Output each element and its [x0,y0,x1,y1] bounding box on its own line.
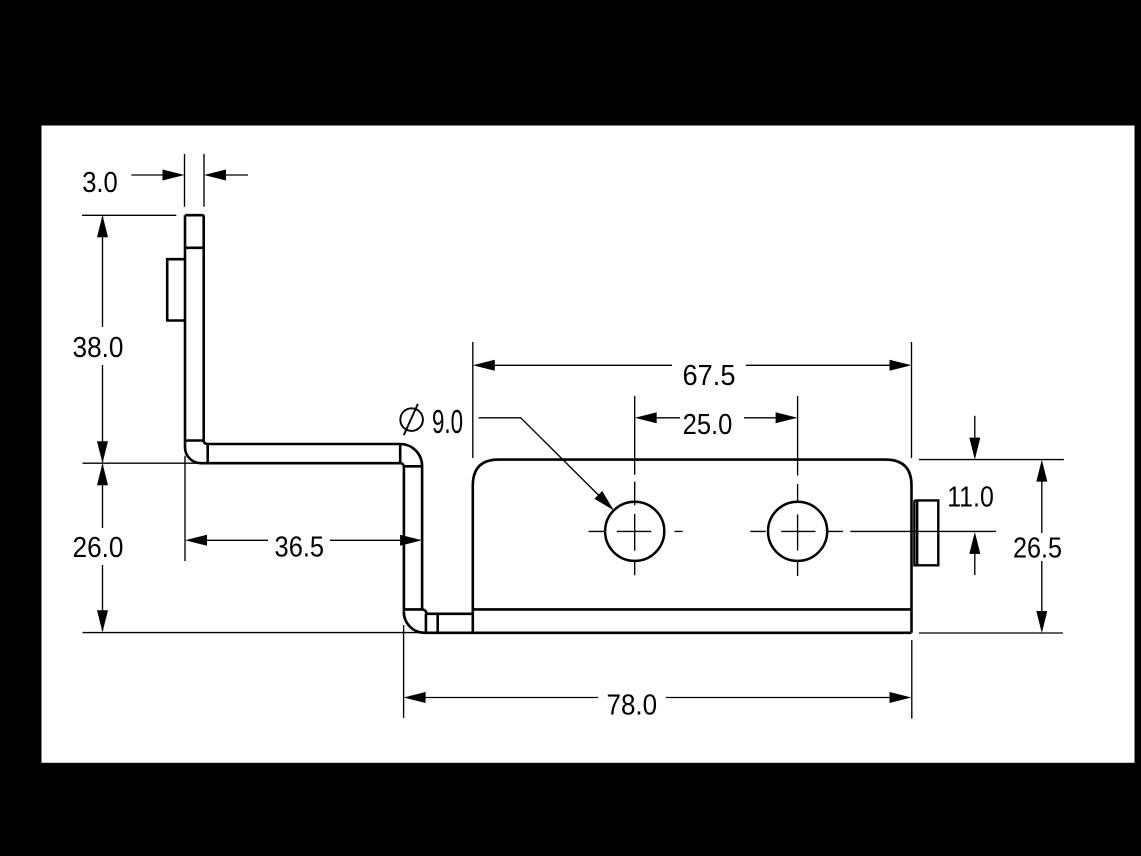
node plate outline [473,460,912,633]
node diameter symbol [400,404,423,435]
node arrow 26.0 down [97,610,108,632]
wire tab inner vertical line [916,500,918,565]
wire inner bend arc into lower wall left edge [400,463,404,612]
wire tick across upper wall [185,247,204,250]
node arrow 3.0 left [163,170,185,181]
svg-text:36.5: 36.5 [275,532,325,564]
wire shared extension line at flange bottom [83,462,199,464]
wire leader for diameter 9.0 [479,418,599,495]
node arrow 67.5 right [890,360,912,371]
wire bottom extension line [83,632,425,634]
wire bend tangent chord at lower wall bottom [404,608,422,611]
node arrow 78.0 right [890,692,912,703]
wire upper wall right edge curving into flange top [204,215,400,444]
wire inner bend tangent vertical [206,444,209,463]
wire dim 78.0 line [426,697,890,699]
node hole2 horizontal centerline [750,530,996,532]
svg-text:26.5: 26.5 [1013,533,1062,565]
node arrow leader 9.0 [594,491,614,511]
wire bottom baseline bold [425,631,912,634]
node arrow 3.0 right [204,170,226,181]
svg-text:3.0: 3.0 [82,167,118,199]
wire top cap of upper wall [185,214,204,217]
svg-text:67.5: 67.5 [683,360,736,392]
node arrow 36.5 left [185,535,207,546]
node right side tab [914,500,938,565]
node arrow 11.0 down [969,438,980,460]
wire dim 78.0 extension lines [404,625,912,719]
svg-text:25.0: 25.0 [683,409,733,441]
wire flange bottom line [201,462,400,465]
wire foot bend tangent vertical [425,614,428,633]
wire dim 11.0 top arrow stem [974,416,976,439]
wire dim 3.0 arrow stems [131,174,248,176]
node left tab on upper wall [167,259,185,320]
wire dim 38.0 line [102,217,104,463]
wire dim 36.5 line [207,539,400,541]
node hole1 horizontal centerline [589,530,683,532]
wire bottom extension line right [919,632,1063,634]
wire inner bend tangent chord horizontal [404,465,421,468]
svg-text:11.0: 11.0 [947,482,994,514]
svg-text:26.0: 26.0 [73,532,124,564]
svg-text:38.0: 38.0 [73,332,124,364]
wire dim 3.0 extension lines [185,154,205,207]
node arrow 36.5 right [400,535,422,546]
wire foot extra vertical line [436,614,439,633]
svg-text:78.0: 78.0 [607,690,658,722]
node arrow 25.0 left [635,412,657,423]
node arrow 78.0 left [404,692,426,703]
wire plate lower face line [473,608,912,611]
node hole 1 left [605,502,664,561]
wire dim 25.0 line [657,417,776,419]
node arrow 26.5 up [1036,460,1047,482]
wire dim 11.0 bottom arrow stem [974,553,976,575]
wire inner bend arc into foot top line [422,609,473,613]
wire outer bend arc into lower wall right edge [400,444,422,609]
node arrow 38.0 down [97,441,108,463]
node arrow 26.0 up [97,463,108,485]
node hole 2 right [768,502,827,561]
wire dim 38.0 top extension line [82,214,176,216]
node arrow 38.0 up [97,215,108,237]
svg-text:9.0: 9.0 [432,403,463,440]
node hole2 vertical centerline [797,396,799,576]
node arrow 25.0 right [776,412,798,423]
node arrow 11.0 up [969,532,980,554]
wire bend tangent chord at wall bottom [185,439,204,442]
wire dim 26.0 line [102,465,104,632]
node arrow 67.5 left [473,360,495,371]
node arrow 26.5 down [1036,611,1047,633]
wire dim 67.5 extension lines [473,342,912,458]
node hole1 vertical centerline [634,396,636,575]
wire upper wall left edge with outer bend fillet [185,215,201,463]
wire dim 36.5 extension line [184,456,186,561]
wire top edge extension line right [919,459,1064,461]
wire outer bend arc at foot bottom [404,612,425,633]
wire dim 67.5 line [495,364,890,366]
wire bend tangent vertical at flange right end [399,444,402,463]
wire dim 26.5 line [1041,481,1043,612]
